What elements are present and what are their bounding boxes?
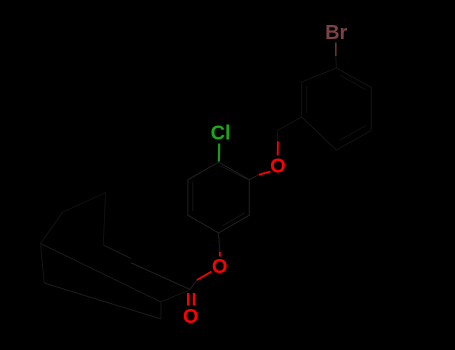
svg-text:Cl: Cl bbox=[211, 123, 231, 145]
svg-text:O: O bbox=[270, 155, 286, 177]
svg-text:O: O bbox=[183, 306, 199, 328]
svg-text:O: O bbox=[212, 256, 228, 278]
svg-text:Br: Br bbox=[325, 22, 347, 44]
